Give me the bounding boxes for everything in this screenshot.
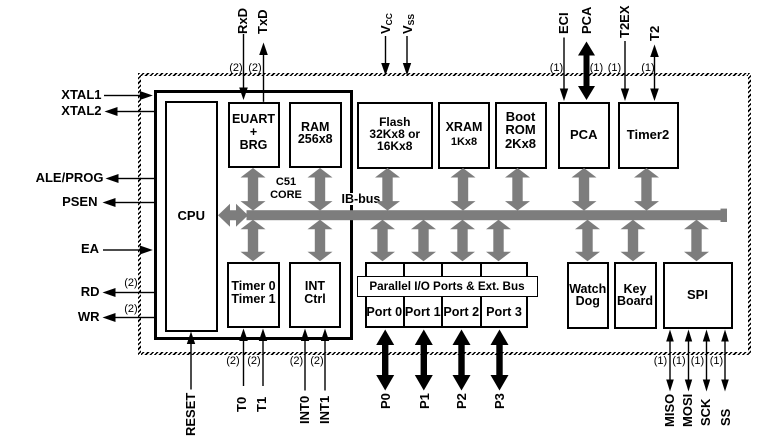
gray double arrow EUART to IB-bus — [241, 168, 266, 211]
annotation (1) T2 — [636, 62, 660, 74]
annotation (2) T1 — [242, 355, 266, 367]
outer chip boundary: left edge — [138, 73, 141, 355]
outer chip boundary: bottom edge — [138, 352, 751, 355]
block Timer2 — [618, 102, 679, 169]
label INT0 (vertical) — [297, 396, 313, 424]
gray double arrow IB-bus to Timer01 — [241, 220, 266, 261]
label P0 (vertical) — [378, 393, 394, 409]
divider Port1/Port2 — [441, 262, 443, 329]
annotation (1) ECI — [545, 62, 569, 74]
label MOSI (vertical) — [680, 394, 696, 427]
label P1 (vertical) — [417, 393, 433, 409]
label SS (vertical) — [718, 408, 734, 425]
arrow INT0 input — [304, 340, 305, 391]
annotation (1) T2EX — [603, 62, 627, 74]
gray double arrow IB-bus to Port0 — [370, 220, 395, 261]
thin double arrow SS — [724, 340, 725, 381]
gray double arrow XRAM to IB-bus — [451, 168, 476, 211]
thin double arrow SCK — [706, 340, 707, 381]
block PCA — [558, 102, 611, 169]
gray double arrow CPU to IB-bus — [218, 204, 248, 227]
arrow ECI input — [563, 38, 564, 90]
arrow EA input — [103, 249, 141, 250]
label T2 (vertical) — [647, 26, 663, 41]
label PSEN — [62, 194, 97, 209]
annotation (1) MOSI — [667, 355, 691, 367]
arrow RxD input — [243, 34, 244, 90]
label RxD (vertical) — [235, 7, 251, 33]
bus IB-bus horizontal bar — [247, 210, 728, 220]
arrow RESET input — [190, 344, 191, 390]
thin double arrow MOSI — [688, 340, 689, 381]
arrow XTAL1 input — [104, 95, 141, 96]
annotation (2) INT0 — [285, 355, 309, 367]
gray double arrow BootROM to IB-bus — [505, 168, 530, 211]
arrow INT1 input — [324, 340, 325, 391]
label C51 CORE — [256, 176, 316, 202]
annotation (2) WR — [119, 303, 143, 315]
label Port 1 — [404, 305, 443, 319]
thin double arrow MISO — [669, 340, 670, 381]
block CPU — [165, 101, 218, 332]
arrow WR output — [115, 317, 154, 318]
block XRAM 1Kx8 — [438, 102, 490, 169]
annotation (2) INT1 — [305, 355, 329, 367]
label XTAL1 — [61, 87, 101, 102]
block EUART+BRG — [228, 102, 280, 169]
arrow TxD output — [263, 54, 264, 102]
thick black double arrow PCA pins — [578, 42, 595, 101]
thick black double arrow P0 port pins — [376, 330, 394, 391]
block SPI — [663, 262, 733, 329]
label ECI (vertical) — [556, 12, 572, 34]
label XTAL2 — [61, 103, 101, 118]
label Vcc (vertical) — [378, 13, 394, 34]
gray double arrow Flash to IB-bus — [375, 168, 400, 211]
divider Port0/Port1 — [403, 262, 405, 329]
label SCK (vertical) — [698, 398, 714, 425]
block Parallel I/O Ports & Ext. Bus band — [357, 276, 538, 297]
block Timer 0 / Timer 1 — [227, 262, 280, 329]
gray double arrow RAM to IB-bus — [308, 168, 333, 211]
annotation (2) RD — [119, 277, 143, 289]
label Port 0 — [365, 305, 404, 319]
annotation (1) SS — [705, 355, 729, 367]
gray double arrow IB-bus to Port1 — [411, 220, 436, 261]
block Key Board — [614, 262, 657, 329]
arrow ALE/PROG output — [118, 178, 154, 179]
C51 core boundary box — [154, 90, 353, 340]
arrow XTAL2 output — [117, 111, 154, 112]
label PCA pin (vertical) — [579, 6, 595, 33]
gray double arrow IB-bus to Port2 — [450, 220, 475, 261]
divider Port2/Port3 — [480, 262, 482, 329]
annotation (2) RxD — [224, 62, 248, 74]
arrow Vss input — [406, 36, 407, 64]
block INT Ctrl — [289, 262, 341, 329]
arrow Vcc input — [385, 36, 386, 64]
block RAM 256x8 — [289, 102, 342, 169]
block Flash 32Kx8 or 16Kx8 — [357, 102, 434, 169]
arrow T1 input — [262, 340, 263, 386]
gray double arrow IB-bus to WatchDog — [575, 220, 600, 261]
block Boot ROM 2Kx8 — [495, 102, 547, 169]
label WR — [78, 309, 100, 324]
label T1 (vertical) — [254, 397, 270, 412]
label Port 2 — [442, 305, 481, 319]
arrow T2EX input — [624, 41, 625, 90]
label TxD (vertical) — [255, 9, 271, 34]
thick black double arrow P1 port pins — [415, 330, 433, 391]
label RESET (vertical) — [183, 392, 199, 435]
gray double arrow IB-bus to KeyBoard — [621, 220, 646, 261]
label EA — [81, 241, 99, 256]
label RD — [81, 284, 100, 299]
label INT1 (vertical) — [317, 396, 333, 424]
arrow PSEN output — [115, 202, 154, 203]
outer chip boundary: right edge — [748, 73, 751, 355]
label Port 3 — [481, 305, 528, 319]
annotation (2) T0 — [221, 355, 245, 367]
gray double arrow PCA to IB-bus — [572, 168, 597, 211]
thin double arrow T2 — [654, 53, 655, 91]
label IB-bus — [341, 193, 382, 205]
arrow T0 input — [243, 340, 244, 386]
label Vss (vertical) — [400, 13, 416, 33]
label P3 (vertical) — [492, 393, 508, 409]
gray double arrow Timer2 to IB-bus — [634, 168, 659, 211]
label T0 (vertical) — [234, 397, 250, 412]
block Parallel I/O Ports group — [365, 262, 528, 329]
gray double arrow IB-bus to SPI — [684, 220, 709, 261]
arrow RD output — [115, 292, 154, 293]
label P2 (vertical) — [454, 393, 470, 409]
label ALE/PROG — [36, 170, 104, 185]
thick black double arrow P3 port pins — [491, 330, 509, 391]
gray double arrow IB-bus to INTCtrl — [308, 220, 333, 261]
annotation (1) SCK — [686, 355, 710, 367]
label T2EX (vertical) — [617, 5, 633, 38]
thick black double arrow P2 port pins — [453, 330, 471, 391]
outer chip boundary: hatched/dashed rectangle top edge — [138, 73, 751, 76]
gray double arrow IB-bus to Port3 — [486, 220, 511, 261]
annotation (2) TxD — [243, 62, 267, 74]
block Watch Dog — [567, 262, 609, 329]
annotation (1) MISO — [649, 355, 673, 367]
annotation (1) PCA — [585, 62, 609, 74]
label MISO (vertical) — [662, 394, 678, 427]
